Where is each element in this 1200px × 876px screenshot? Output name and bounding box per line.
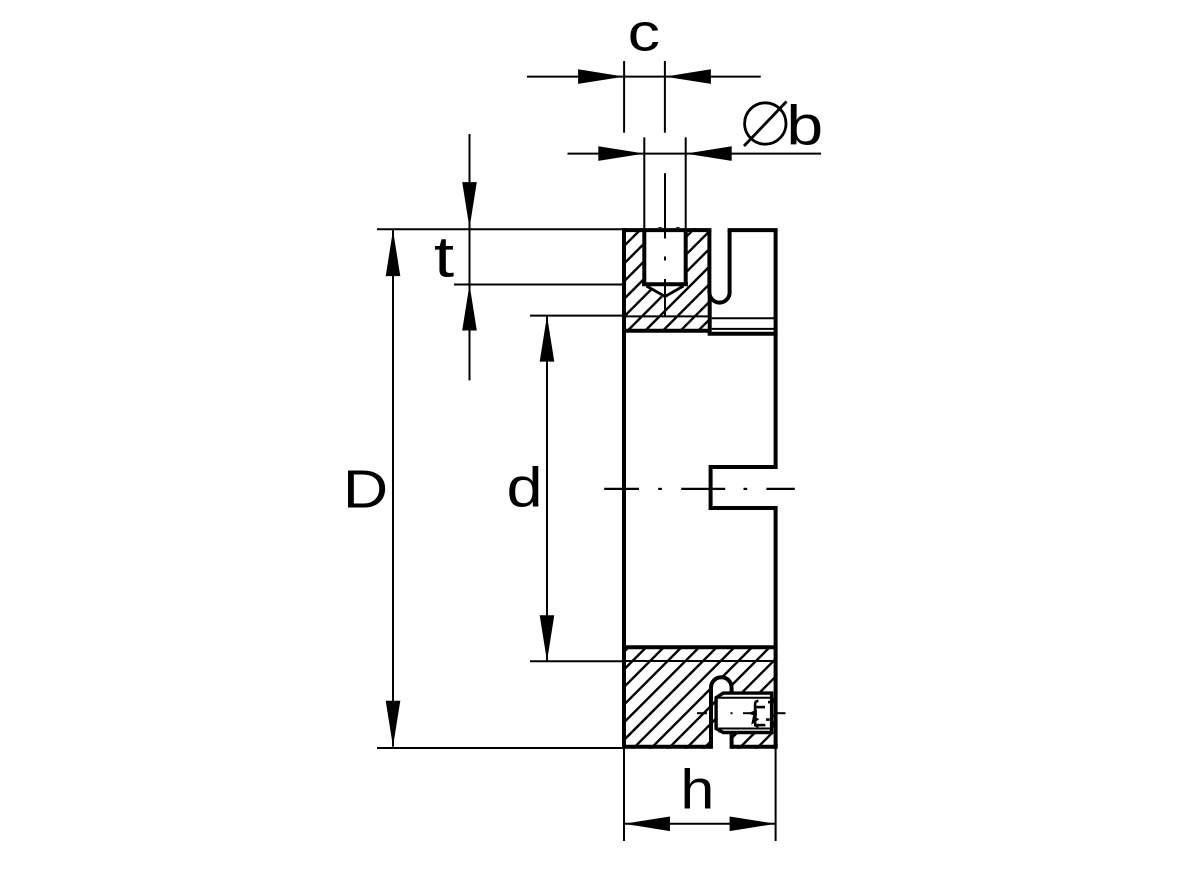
nut body left edge bbox=[622, 228, 626, 749]
d arrow down bbox=[540, 615, 555, 661]
step below top slot bbox=[708, 296, 712, 334]
svg-text:d: d bbox=[506, 456, 542, 519]
svg-text:D: D bbox=[343, 459, 388, 519]
bore line (right of slot) bbox=[712, 317, 776, 319]
tiny arrow at screw slot bbox=[751, 715, 759, 725]
thread root line thick (top, left part) bbox=[622, 329, 710, 333]
second thin line (right of slot) bbox=[712, 328, 776, 330]
D extension line top bbox=[377, 228, 624, 230]
h arrow pointing left bbox=[624, 817, 670, 832]
c arrow pointing left bbox=[665, 69, 711, 84]
b arrow pointing left bbox=[686, 146, 732, 161]
h arrow pointing right bbox=[730, 817, 776, 832]
t dimension line bbox=[469, 134, 471, 380]
t arrow down (above) bbox=[462, 182, 477, 228]
d extension line top bbox=[530, 315, 624, 317]
diameter symbol bbox=[745, 103, 786, 144]
nut top face (right of slot) bbox=[728, 228, 778, 232]
main horizontal centerline bbox=[604, 488, 639, 490]
screw slot edges bbox=[756, 706, 765, 709]
t extension line bottom bbox=[454, 284, 624, 286]
svg-text:h: h bbox=[680, 759, 714, 821]
right notch (slot in profile) bbox=[711, 467, 778, 508]
h dimension line bbox=[624, 823, 776, 825]
b extension lines bbox=[643, 137, 645, 230]
b arrow pointing right bbox=[598, 146, 644, 161]
hatching: bottom flange section bbox=[425, 620, 955, 780]
tiny arrow on screw centerline bbox=[748, 710, 757, 717]
screw slot bottom bbox=[755, 701, 758, 726]
set screw outline bbox=[716, 693, 772, 732]
thick line (right of slot) bbox=[708, 332, 778, 336]
D dimension line bbox=[392, 230, 394, 747]
screw thread crest lines bbox=[718, 697, 772, 699]
nut right edge (above notch) bbox=[774, 230, 778, 467]
hatching: top flange section bbox=[457, 200, 952, 360]
d dimension line bbox=[546, 316, 548, 662]
nut bottom face (right of slot) bbox=[732, 745, 778, 749]
D arrow down bbox=[386, 701, 401, 747]
nut right edge (below notch) bbox=[774, 508, 778, 749]
c extension lines bbox=[623, 61, 625, 133]
top slot U-profile bbox=[709, 230, 729, 302]
t arrow up (below) bbox=[462, 285, 477, 331]
svg-text:b: b bbox=[786, 94, 823, 156]
bottom slot right leg below screw bbox=[730, 733, 734, 749]
bottom slot arch bbox=[711, 677, 732, 749]
d arrow up bbox=[540, 316, 555, 362]
tapped hole left wall bbox=[642, 230, 646, 284]
thread crest line thin (bottom) bbox=[624, 660, 776, 662]
b dimension line bbox=[568, 153, 822, 155]
c dimension line bbox=[527, 76, 761, 78]
d extension line bottom bbox=[530, 660, 624, 662]
drill point V bbox=[647, 286, 684, 297]
c arrow pointing right bbox=[578, 69, 624, 84]
h extension lines bbox=[623, 747, 625, 841]
screw centerline bbox=[697, 712, 707, 714]
tapped hole right wall bbox=[684, 230, 688, 284]
hole centerline bbox=[664, 173, 666, 238]
tapped hole bottom bbox=[642, 282, 688, 286]
nut bottom face (left of slot) bbox=[622, 745, 711, 749]
D extension line bottom bbox=[377, 747, 624, 749]
hidden line at screw end bbox=[773, 698, 775, 702]
thread root line thick (bottom) bbox=[622, 645, 778, 649]
svg-text:c: c bbox=[628, 2, 660, 62]
thread crest line (top, left part) bbox=[624, 315, 710, 317]
D arrow up bbox=[386, 230, 401, 276]
nut top face (left of slot) bbox=[622, 228, 711, 232]
svg-text:t: t bbox=[434, 225, 454, 289]
